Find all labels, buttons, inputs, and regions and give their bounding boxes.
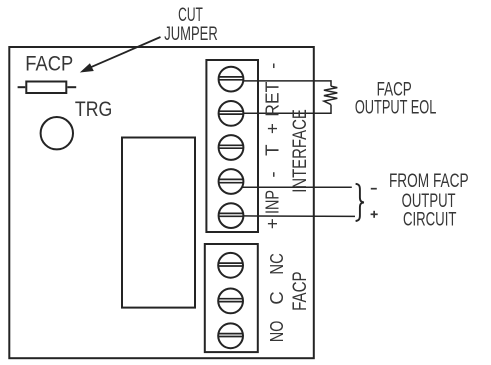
brace xyxy=(356,184,364,221)
screw terminal INP- xyxy=(219,169,244,194)
screw terminal INP+ xyxy=(219,203,244,228)
svg-text:-: - xyxy=(261,171,282,177)
svg-text:CUT: CUT xyxy=(178,5,203,26)
svg-text:OUTPUT EOL: OUTPUT EOL xyxy=(355,97,437,119)
svg-text:RET: RET xyxy=(261,82,282,117)
wire: INP- terminal to brace xyxy=(242,186,352,188)
TRG button circle xyxy=(41,117,73,149)
svg-text:-: - xyxy=(261,63,282,69)
svg-text:FACP: FACP xyxy=(25,53,73,76)
svg-text:+: + xyxy=(261,218,282,229)
svg-text:+: + xyxy=(261,123,282,134)
screw terminal C xyxy=(218,289,243,314)
relay/module rectangle xyxy=(122,138,195,308)
resistor EOL xyxy=(324,86,337,104)
terminal block TB2 (FACP relay) xyxy=(205,244,258,352)
screw terminal NC xyxy=(218,253,243,278)
screw terminal T xyxy=(219,135,244,160)
svg-text:TRG: TRG xyxy=(75,98,112,121)
screw terminal RET- xyxy=(219,67,244,92)
svg-text:FACP: FACP xyxy=(289,271,311,311)
arrow from JUMPER label to jumper xyxy=(80,37,161,73)
board outline xyxy=(9,47,314,358)
svg-text:C: C xyxy=(266,291,287,305)
label FACP OUTPUT EOL xyxy=(355,79,437,119)
label CUT JUMPER xyxy=(164,5,217,45)
screw terminal NO xyxy=(218,323,243,348)
label FROM FACP OUTPUT CIRCUIT xyxy=(389,170,469,231)
wire: INP+ terminal to brace xyxy=(243,215,355,218)
svg-text:FROM FACP: FROM FACP xyxy=(389,170,469,192)
label plus (from FACP) xyxy=(371,211,378,218)
wire: EOL resistor bottom to RET+ terminal xyxy=(243,105,331,114)
wire: RET- terminal to EOL resistor top xyxy=(243,81,331,86)
svg-text:INTERFACE: INTERFACE xyxy=(289,109,311,193)
svg-text:T: T xyxy=(261,144,282,155)
terminal block TB1 (interface) xyxy=(206,60,258,232)
svg-text:JUMPER: JUMPER xyxy=(164,24,217,45)
screw terminal RET+ xyxy=(219,101,244,126)
svg-text:NO: NO xyxy=(266,321,287,342)
svg-text:NC: NC xyxy=(266,253,287,274)
label minus (from FACP) xyxy=(371,188,377,190)
jumper W1 xyxy=(18,82,77,94)
svg-text:CIRCUIT: CIRCUIT xyxy=(403,209,457,231)
svg-text:INP: INP xyxy=(261,190,282,214)
